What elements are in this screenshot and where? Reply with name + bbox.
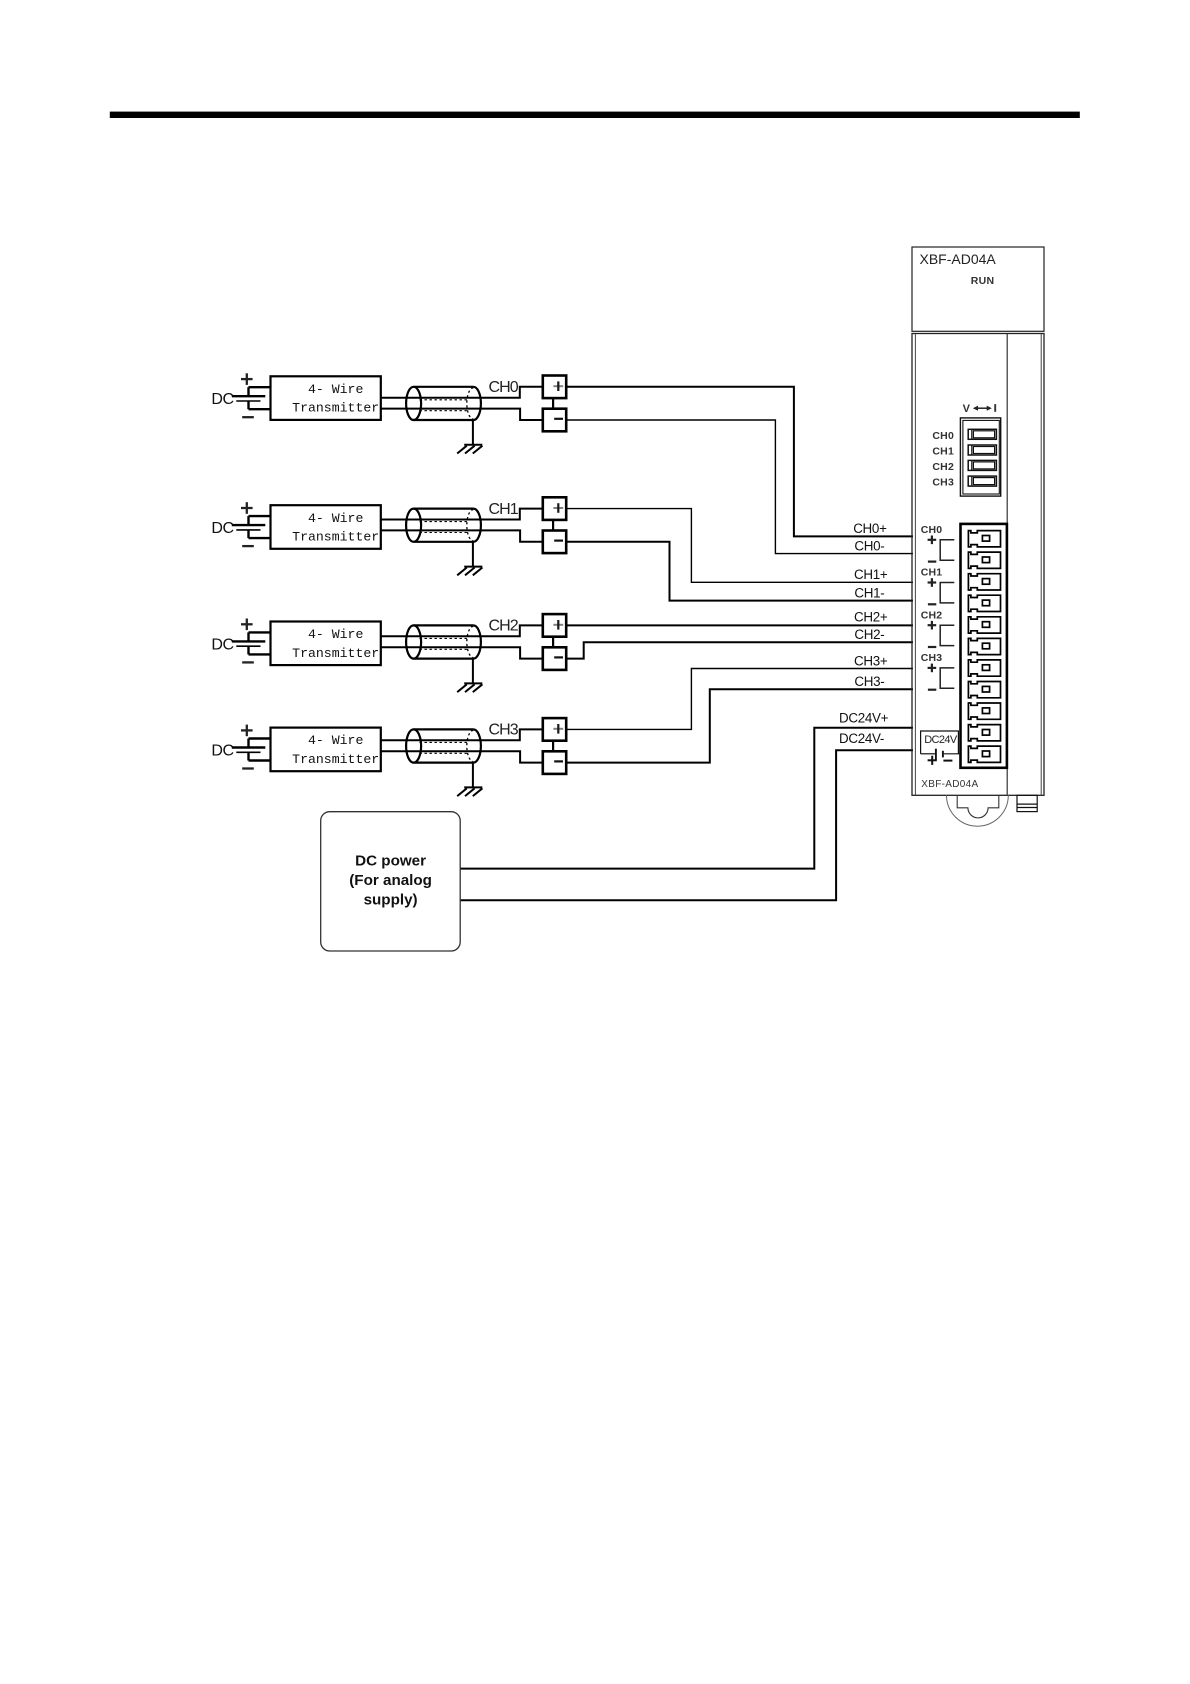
- transmitter TX0 (4-Wire Transmitter CH0): [271, 376, 381, 420]
- shielded cable CH1: [406, 509, 481, 542]
- svg-text:4- Wire: 4- Wire: [308, 382, 363, 397]
- wire link CH2 + to - square: [552, 637, 554, 648]
- wire DC24V- to module: [460, 750, 913, 900]
- DIP switch CH0: [968, 429, 996, 439]
- DIP switch block V/I: [960, 418, 1000, 496]
- svg-text:CH1: CH1: [489, 501, 519, 518]
- pin polarity CH3 -: [928, 689, 936, 691]
- svg-text:V: V: [963, 403, 971, 415]
- svg-text:DC: DC: [211, 743, 233, 760]
- terminal pin 4: [968, 595, 1000, 611]
- wire CH3- to module: [566, 689, 913, 762]
- svg-text:CH1+: CH1+: [854, 567, 888, 582]
- wire bracket CH2 to terminals: [940, 625, 954, 645]
- svg-text:4- Wire: 4- Wire: [308, 627, 363, 642]
- DC source for CH0 transmitter: [211, 373, 271, 417]
- wire TX3 + output to CH3 terminal: [381, 729, 543, 740]
- svg-text:CH2-: CH2-: [854, 627, 884, 642]
- wire bracket CH3 to terminals: [940, 668, 954, 688]
- pin polarity CH0 -: [928, 560, 936, 562]
- svg-text:CH3: CH3: [932, 477, 954, 489]
- svg-text:DC: DC: [211, 391, 233, 408]
- terminal square CH2 +: [543, 614, 566, 637]
- svg-text:4- Wire: 4- Wire: [308, 733, 363, 748]
- terminal block outline: [961, 524, 1007, 768]
- svg-text:4- Wire: 4- Wire: [308, 511, 363, 526]
- terminal pin 9: [968, 703, 1000, 719]
- svg-text:DC: DC: [211, 520, 233, 537]
- terminal pin 2: [968, 552, 1000, 568]
- pin polarity CH2 +: [928, 621, 937, 630]
- wire CH2+ to module: [566, 624, 913, 626]
- wire bracket CH0 to terminals: [940, 540, 954, 560]
- svg-text:(For analog: (For analog: [349, 872, 432, 889]
- svg-text:supply): supply): [364, 891, 418, 908]
- svg-text:Transmitter: Transmitter: [292, 752, 379, 767]
- DIP switch CH3: [968, 476, 996, 486]
- pin polarity CH1 +: [928, 578, 937, 587]
- expansion connector: [1017, 795, 1037, 811]
- wire TX1 + output to CH1 terminal: [381, 509, 543, 520]
- svg-text:CH0+: CH0+: [853, 521, 887, 536]
- pin polarity CH2 -: [928, 646, 936, 648]
- svg-text:CH0: CH0: [932, 430, 954, 442]
- DC24V input terminal box: [921, 731, 959, 754]
- terminal pin 8: [968, 682, 1000, 698]
- wire CH2- to module: [566, 642, 913, 658]
- svg-text:Transmitter: Transmitter: [292, 401, 379, 416]
- DIN rail clamp arc: [947, 795, 1009, 826]
- wire TX3 - output to CH3 terminal: [381, 751, 543, 762]
- wire TX1 - output to CH1 terminal: [381, 530, 543, 541]
- wire link CH1 + to - square: [552, 520, 554, 531]
- terminal pin 1: [968, 531, 1000, 547]
- wire bracket CH1 to terminals: [940, 583, 954, 603]
- wire CH1+ to module: [566, 509, 913, 583]
- terminal square CH2 -: [543, 647, 566, 670]
- terminal pin 7: [968, 660, 1000, 676]
- terminal pin 10: [968, 725, 1000, 741]
- shielded cable CH3: [406, 729, 481, 762]
- svg-text:XBF-AD04A: XBF-AD04A: [920, 251, 997, 267]
- terminal pin 5: [968, 617, 1000, 633]
- svg-text:CH0-: CH0-: [854, 539, 884, 554]
- svg-text:CH0: CH0: [489, 379, 519, 396]
- shielded cable CH0: [406, 387, 481, 420]
- pin polarity CH3 +: [928, 664, 937, 673]
- DIP switch CH1: [968, 445, 996, 455]
- DIP switch CH2: [968, 460, 996, 470]
- svg-text:CH3: CH3: [921, 652, 943, 664]
- wire CH0+ to module: [566, 387, 913, 537]
- ground (shield of CH3 cable): [457, 763, 482, 797]
- shielded cable CH2: [406, 625, 481, 658]
- svg-text:CH0: CH0: [921, 524, 943, 536]
- svg-text:CH1-: CH1-: [854, 586, 884, 601]
- DC24V battery symbol: [921, 749, 961, 765]
- ground (shield of CH0 cable): [457, 420, 482, 454]
- svg-text:XBF-AD04A: XBF-AD04A: [921, 779, 978, 790]
- svg-text:DC power: DC power: [355, 852, 426, 869]
- wire TX2 + output to CH2 terminal: [381, 625, 543, 636]
- terminal pin 11: [968, 746, 1000, 762]
- transmitter TX3 (4-Wire Transmitter CH3): [271, 728, 381, 772]
- svg-text:CH3-: CH3-: [854, 674, 884, 689]
- svg-text:DC24V+: DC24V+: [839, 711, 889, 726]
- svg-text:DC24V: DC24V: [924, 734, 958, 746]
- svg-text:CH3+: CH3+: [854, 653, 888, 668]
- svg-text:CH3: CH3: [489, 722, 519, 739]
- wire CH0- to module: [566, 420, 913, 554]
- DIN rail clamp notch: [957, 795, 999, 818]
- wire TX0 - output to CH0 terminal: [381, 409, 543, 420]
- svg-text:RUN: RUN: [971, 275, 995, 287]
- transmitter TX2 (4-Wire Transmitter CH2): [271, 622, 381, 666]
- wire CH3+ to module: [566, 669, 913, 730]
- ground (shield of CH1 cable): [457, 542, 482, 576]
- terminal pin 3: [968, 574, 1000, 590]
- wire link CH3 + to - square: [552, 741, 554, 752]
- svg-text:CH1: CH1: [921, 567, 943, 579]
- ground (shield of CH2 cable): [457, 659, 482, 693]
- pin polarity CH1 -: [928, 603, 936, 605]
- svg-text:CH2: CH2: [489, 618, 519, 635]
- wire link CH0 + to - square: [552, 398, 554, 409]
- terminal square CH3 -: [543, 751, 566, 774]
- terminal square CH1 -: [543, 531, 566, 554]
- svg-text:CH2: CH2: [921, 609, 943, 621]
- svg-text:CH2+: CH2+: [854, 609, 888, 624]
- svg-text:DC: DC: [211, 636, 233, 653]
- pin polarity CH0 +: [928, 536, 937, 545]
- svg-text:Transmitter: Transmitter: [292, 646, 379, 661]
- DC source for CH3 transmitter: [211, 725, 271, 769]
- module XBF-AD04A top box: [912, 247, 1044, 331]
- svg-text:DC24V-: DC24V-: [839, 731, 884, 746]
- transmitter TX1 (4-Wire Transmitter CH1): [271, 505, 381, 549]
- DC power supply (for analog supply): [321, 812, 461, 951]
- terminal square CH0 +: [543, 376, 566, 399]
- wire DC24V+ to module: [460, 728, 913, 869]
- wire TX0 + output to CH0 terminal: [381, 387, 543, 398]
- svg-text:CH2: CH2: [932, 461, 954, 473]
- terminal square CH3 +: [543, 718, 566, 741]
- svg-text:CH1: CH1: [932, 446, 954, 458]
- wire CH1- to module: [566, 542, 913, 601]
- page rule: [110, 112, 1080, 118]
- terminal square CH0 -: [543, 409, 566, 432]
- label V-I range selector: [963, 403, 996, 415]
- wire TX2 - output to CH2 terminal: [381, 647, 543, 658]
- terminal square CH1 +: [543, 497, 566, 520]
- DC source for CH1 transmitter: [211, 502, 271, 546]
- terminal pin 6: [968, 638, 1000, 654]
- svg-text:Transmitter: Transmitter: [292, 530, 379, 545]
- module XBF-AD04A body: [912, 334, 1044, 796]
- DC source for CH2 transmitter: [211, 619, 271, 663]
